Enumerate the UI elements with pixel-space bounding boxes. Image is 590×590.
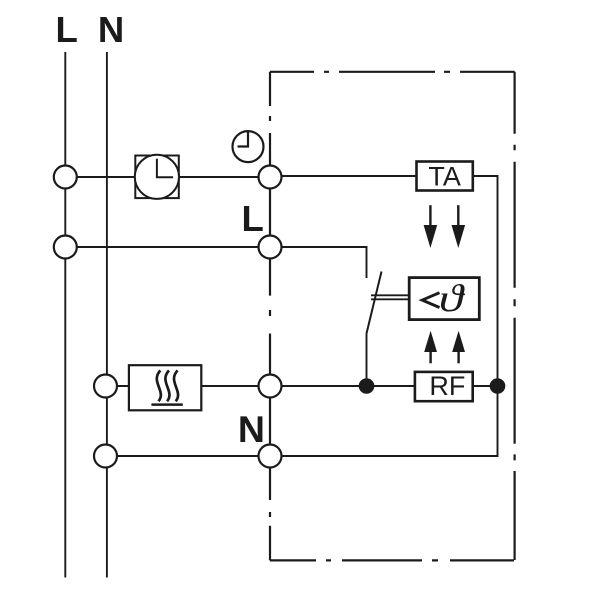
svg-text:N: N [98,9,124,50]
svg-text:N: N [238,408,265,450]
svg-text:L: L [56,9,78,50]
svg-text:ϑ: ϑ [439,277,466,319]
svg-text:TA: TA [428,162,461,192]
svg-text:RF: RF [429,371,465,401]
svg-text:L: L [242,198,264,239]
